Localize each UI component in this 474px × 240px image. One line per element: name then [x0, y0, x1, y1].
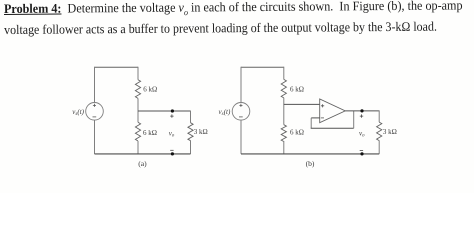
svg-text:vo: vo: [359, 130, 365, 139]
resistor 3k (a): [188, 123, 193, 141]
node dot (b) plus terminal: [360, 109, 363, 112]
svg-text:(a): (a): [138, 159, 147, 168]
resistor 6k bottom (a): [135, 122, 140, 141]
voltage source vs(t) (a): [86, 103, 104, 121]
label vs(t) (a): [72, 108, 84, 117]
resistor 6k bottom (b): [281, 125, 286, 142]
label 6 kOhm bottom (b): [290, 128, 304, 136]
wire (b) 6k branch center: [283, 98, 285, 125]
wire (a) output top: [138, 110, 191, 112]
svg-text:6 kΩ: 6 kΩ: [143, 129, 157, 137]
wire (a) bottom rail: [95, 153, 191, 155]
wire (b) feedback bottom horizontal: [311, 127, 354, 129]
wire (b) feedback left vertical: [310, 118, 312, 128]
resistor 6k top (a): [135, 80, 140, 99]
resistor 6k top (b): [281, 79, 286, 97]
svg-text:3 kΩ: 3 kΩ: [194, 128, 208, 136]
label (b): [306, 159, 315, 168]
wire (b) bottom rail: [241, 153, 379, 155]
label plus terminal (b): [360, 114, 363, 117]
svg-text:6 kΩ: 6 kΩ: [290, 128, 304, 136]
label minus terminal (a): [170, 149, 173, 151]
label plus terminal (a): [170, 114, 173, 117]
label vo (b): [359, 130, 365, 139]
wire (b) 3k branch lower: [378, 141, 380, 154]
node dot (a) plus terminal: [171, 109, 174, 112]
svg-text:vs(t): vs(t): [72, 108, 84, 117]
label 3 kOhm (a): [194, 128, 208, 136]
wire (a) left branch lower: [94, 120, 96, 154]
wire (a) 3k branch upper: [190, 111, 192, 123]
label vo (a): [169, 129, 175, 138]
svg-text:6 kΩ: 6 kΩ: [143, 86, 157, 94]
op-amp U1: [320, 99, 346, 123]
voltage source vs(t) (b): [232, 103, 250, 121]
wire (a) top rail: [95, 66, 139, 68]
label 6 kOhm top (b): [290, 86, 304, 94]
svg-text:6 kΩ: 6 kΩ: [290, 86, 304, 94]
wire (a) 3k branch lower: [190, 141, 192, 154]
wire (b) left branch lower: [240, 120, 242, 154]
wire (b) 6k branch lower: [283, 141, 285, 154]
label 6 kOhm top (a): [143, 86, 157, 94]
wire (b) op-amp noninverting input: [284, 103, 320, 105]
wire (b) left branch upper: [240, 67, 242, 103]
node dot (b) minus terminal: [360, 152, 363, 155]
label 6 kOhm bottom (a): [143, 129, 157, 137]
wire (a) middle branch center: [137, 98, 139, 122]
svg-text:vs(t): vs(t): [219, 108, 231, 117]
label minus terminal (b): [360, 149, 363, 151]
wire (b) top rail: [241, 66, 284, 68]
wire (a) left branch upper: [94, 67, 96, 103]
wire (b) inverting input: [311, 117, 320, 119]
svg-text:vo: vo: [169, 129, 175, 138]
wire (b) 6k branch upper: [283, 67, 285, 80]
wire (a) middle branch lower: [137, 141, 139, 154]
wire (a) middle branch upper: [137, 67, 139, 80]
wire (b) output: [345, 110, 379, 112]
label (a): [138, 159, 147, 168]
label vs(t) (b): [219, 108, 231, 117]
label 3 kOhm (b): [383, 128, 397, 136]
wire (b) 3k branch upper: [378, 110, 380, 122]
svg-text:3 kΩ: 3 kΩ: [383, 128, 397, 136]
node dot (a) minus terminal: [171, 152, 174, 155]
wire (b) feedback right vertical: [353, 111, 355, 128]
svg-text:(b): (b): [306, 159, 315, 168]
resistor 3k (b): [377, 122, 382, 141]
